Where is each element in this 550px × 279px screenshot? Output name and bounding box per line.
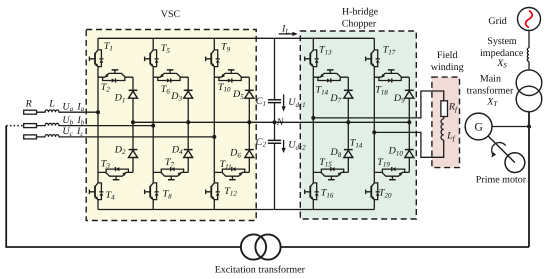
transistor T2 (98, 70, 133, 83)
resistor R phase c (24, 135, 37, 139)
svg-text:G: G (474, 122, 482, 134)
svg-text:VSC: VSC (161, 9, 181, 20)
prime motor circle (505, 153, 525, 173)
resistor R phase a (24, 110, 37, 114)
svg-text:System: System (487, 36, 517, 47)
svg-text:Excitation transformer: Excitation transformer (215, 264, 306, 275)
wire: chopper left-leg output to Rf top (313, 91, 443, 118)
arrow IL on dc link (279, 33, 294, 35)
wire: clamp line leg b (D3/D4) (187, 77, 189, 172)
svg-text:H-bridge: H-bridge (342, 7, 379, 18)
transistor T19 (374, 167, 409, 180)
wire: VSC leg c vertical (213, 38, 215, 209)
wire: phase c input with inductor (37, 135, 215, 137)
wire: right vertical riser (528, 112, 530, 247)
svg-text:R: R (25, 99, 32, 110)
node chopper left output (311, 116, 315, 120)
svg-text:Chopper: Chopper (342, 18, 377, 29)
svg-text:L: L (48, 99, 55, 110)
wire: chopper right-leg output to Lf bottom (374, 132, 443, 157)
wire: G to riser (492, 126, 529, 128)
svg-text:Main: Main (480, 73, 501, 84)
wire: phase b input with inductor (37, 123, 154, 125)
resistor R phase b (24, 124, 37, 128)
wire: neutral bus (133, 121, 409, 123)
diode D10 (405, 150, 414, 158)
diode D1 (129, 90, 138, 98)
wire: excitation loop left vertical (6, 126, 241, 247)
diode D7 (344, 90, 353, 98)
transistor T3 (98, 167, 133, 180)
main transformer XT (516, 70, 542, 96)
node chopper clamp D9D10 (407, 120, 411, 124)
node clamp a neutral (131, 120, 135, 124)
diode D5 (245, 90, 254, 98)
wire: chopper clamp line D9/D10 (408, 77, 410, 172)
field winding dashed box (432, 77, 460, 168)
node chopper clamp D7D8 (346, 120, 350, 124)
transistor T11 (214, 167, 249, 180)
capacitor C2 (268, 140, 281, 143)
rotation arrow (492, 142, 506, 154)
transistor T1 (89, 48, 103, 68)
wire: DC- bottom rail (98, 209, 374, 211)
node chopper right output (372, 130, 376, 134)
svg-text:Prime motor: Prime motor (476, 174, 527, 185)
transistor T12 (206, 181, 220, 201)
node clamp c neutral (247, 120, 251, 124)
wire: phase a input with inductor (37, 110, 99, 112)
diode D3 (184, 90, 193, 98)
wire: DC+ top rail (98, 37, 374, 39)
capacitor C1 (268, 100, 281, 103)
excitation transformer (241, 234, 266, 259)
diode D6 (245, 150, 254, 158)
inductor Lf (441, 119, 444, 140)
wire: chopper right leg (373, 38, 375, 209)
node clamp b neutral (186, 120, 190, 124)
transistor T5 (145, 48, 159, 68)
generator G circle (465, 113, 492, 140)
wire: VSC leg a vertical (97, 38, 99, 209)
wire: impedance to main transformer (528, 62, 530, 71)
transistor T9 (206, 48, 220, 68)
VSC dashed box (86, 30, 256, 221)
transistor T14 (313, 70, 348, 83)
grid source circle (518, 8, 541, 31)
wire: grid to system impedance (528, 31, 530, 48)
node N (273, 120, 277, 124)
shaft G to prime motor (488, 136, 515, 163)
wire: dotted feed to phase b (6, 125, 24, 127)
svg-text:Field: Field (437, 50, 458, 61)
wire: excitation loop bottom right (281, 246, 529, 248)
arrow Udc2 (283, 140, 285, 149)
arrow Udc1 (283, 94, 285, 107)
transistor T15 (313, 167, 348, 180)
svg-text:transformer: transformer (467, 86, 514, 97)
grid red wave (526, 11, 533, 28)
svg-text:winding: winding (431, 62, 464, 73)
diode D4 (184, 150, 193, 158)
transistor T7 (153, 167, 188, 180)
wire: dc-link capacitor rail (274, 38, 276, 209)
transistor T17 (366, 48, 380, 68)
node phase c (212, 135, 216, 139)
transistor T10 (214, 70, 249, 83)
wire: chopper left leg (312, 38, 314, 209)
transistor T18 (374, 70, 409, 83)
transistor T4 (89, 181, 103, 201)
H-bridge chopper dashed box (300, 31, 416, 219)
diode D8 (344, 150, 353, 158)
node phase a (96, 110, 100, 114)
diode D2 (129, 150, 138, 158)
transistor T20 (366, 181, 380, 201)
transistor T16 (305, 181, 319, 201)
transistor T6 (153, 70, 188, 83)
transistor T8 (145, 181, 159, 201)
wire: Rf to Lf (443, 117, 445, 119)
svg-text:N: N (276, 117, 285, 128)
inductor Xs system impedance (527, 48, 529, 62)
node generator riser (527, 125, 531, 129)
wire: VSC leg b vertical (152, 38, 154, 209)
svg-text:Grid: Grid (488, 16, 506, 27)
transistor T13 (305, 48, 319, 68)
wire: clamp line leg c (D5/D6) (248, 77, 250, 172)
resistor Rf (441, 101, 448, 117)
node phase b (151, 124, 155, 128)
diode D9 (405, 90, 414, 98)
wire: clamp line leg a (D1/D2) (132, 77, 134, 172)
wire: chopper clamp line D7/D8 (347, 77, 349, 172)
